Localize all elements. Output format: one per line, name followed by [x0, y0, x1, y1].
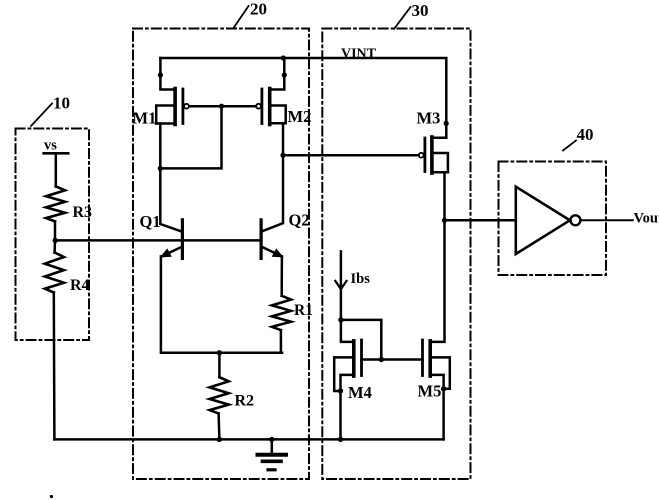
pointer line 20 [234, 6, 249, 28]
svg-text:40: 40 [577, 125, 594, 144]
block box 20 [133, 29, 309, 480]
stray mark bottom left [50, 495, 53, 498]
Ibs arrowhead [335, 281, 346, 289]
wire gate line M1 to M2 [189, 105, 256, 108]
transistor M5 gate bar [421, 340, 424, 376]
svg-text:30: 30 [412, 1, 429, 20]
transistor Q2 emitter arrow [272, 248, 284, 257]
transistor M2 gate bubble [256, 104, 261, 109]
wire rail to M1 source [160, 58, 175, 90]
transistor Q1 emitter arrow [160, 248, 172, 257]
svg-text:R2: R2 [235, 393, 255, 410]
svg-text:vs: vs [44, 138, 57, 154]
transistor Q1 emitter [163, 247, 182, 256]
transistor M4 channel [352, 341, 356, 376]
svg-text:M4: M4 [348, 383, 372, 402]
transistor Q2 emitter [261, 247, 280, 256]
svg-text:M3: M3 [417, 109, 441, 128]
pointer line 40 [563, 141, 576, 151]
svg-text:R4: R4 [70, 277, 90, 294]
wire ground rail [54, 438, 443, 441]
wire base rail [55, 239, 261, 242]
junction M5 source [441, 386, 446, 391]
wire R4 down to ground rail [53, 293, 56, 440]
transistor M2 channel [268, 89, 272, 125]
junction node A (R3/R4/base) [53, 238, 58, 243]
svg-text:M2: M2 [288, 107, 312, 126]
wire R1 to tail rail [280, 330, 283, 353]
svg-text:R1: R1 [294, 302, 313, 319]
resistor R1 [272, 296, 291, 330]
svg-text:20: 20 [250, 0, 267, 19]
junction on M2 source [282, 72, 287, 77]
transistor M5 source stub [430, 375, 443, 440]
svg-text:VINT: VINT [341, 47, 377, 62]
transistor M4 source stub [341, 375, 354, 440]
wire node to inverter input [445, 219, 516, 222]
transistor Q2 base bar [260, 220, 263, 259]
wire Q2 emitter to R1 [280, 256, 283, 296]
junction M4 ground [338, 437, 343, 442]
wire vs to R3 [55, 153, 58, 186]
wire R2 to ground rail [217, 414, 220, 440]
transistor M4 gate bar [360, 340, 363, 376]
svg-text:Ibs: Ibs [351, 271, 371, 287]
wire M2 drain to M3 gate [283, 154, 419, 157]
pointer line 10 [31, 104, 52, 127]
junction on rail at M2 column [281, 55, 286, 60]
junction Ibs node [338, 317, 343, 322]
transistor M3 gate bar [423, 138, 426, 172]
transistor M1 drain stub [156, 122, 175, 125]
wire tail to R2 [218, 353, 221, 377]
wire Q1 emitter to tail rail [161, 256, 282, 352]
block box 10 [16, 129, 90, 341]
wire M3 drain down to M5 drain [430, 172, 444, 342]
svg-text:M5: M5 [418, 382, 442, 401]
svg-text:Q1: Q1 [140, 212, 161, 231]
pointer line 30 [394, 7, 411, 29]
transistor Q1 base bar [181, 220, 184, 259]
junction on M1 source [158, 72, 163, 77]
transistor M4 bulk stub [334, 357, 354, 391]
transistor M3 drain stub [432, 171, 448, 174]
wire inverter output [581, 219, 633, 221]
svg-text:R3: R3 [73, 204, 93, 221]
wire Ibs node to M4 gate [341, 320, 381, 360]
svg-text:Vout: Vout [634, 211, 659, 227]
transistor M2 drain stub [270, 122, 286, 125]
wire R3 to R4 [53, 221, 56, 252]
resistor R2 [210, 377, 229, 413]
wire rail to M2 source [270, 58, 285, 90]
junction inverter input node [442, 218, 447, 223]
junction tail node [217, 350, 222, 355]
block box 30 [322, 29, 470, 480]
inverter U1 triangle [516, 187, 570, 254]
junction gate node [219, 104, 224, 109]
junction M4/M5 gate node [379, 357, 384, 362]
junction M3 source stub [444, 121, 449, 126]
transistor M3 bulk stub [432, 153, 448, 172]
transistor M2 gate bar [260, 89, 263, 124]
wire gate node to M1 drain [160, 106, 221, 168]
transistor M3 gate bubble [419, 153, 424, 158]
node vs terminal bar [44, 152, 68, 155]
junction M2 drain node [280, 153, 285, 158]
transistor M1 gate bubble [184, 104, 189, 109]
junction M4 source [338, 388, 343, 393]
wire M1 drain to Q1 collector [160, 124, 181, 232]
junction ground tap [269, 437, 274, 442]
current source Ibs wire [341, 251, 354, 342]
transistor M1 bulk stub [156, 106, 175, 124]
svg-text:10: 10 [53, 94, 70, 113]
junction M1 drain node [158, 166, 163, 171]
wire M2 drain to Q2 collector [262, 123, 283, 231]
transistor M1 gate bar [181, 89, 184, 124]
block box 40 [499, 162, 607, 276]
transistor M2 bulk stub [270, 106, 286, 124]
transistor M5 channel [428, 341, 432, 376]
wire gate rail M4 to M5 [362, 358, 423, 361]
svg-text:M1: M1 [133, 109, 157, 128]
resistor R4 [45, 253, 64, 293]
ground [258, 439, 287, 469]
wire VINT top rail with M3 source drop [160, 58, 446, 138]
resistor R3 [46, 186, 65, 221]
inverter U1 bubble [570, 215, 580, 225]
transistor M5 bulk stub [430, 357, 450, 388]
transistor M1 channel [173, 89, 177, 125]
transistor M3 channel [430, 137, 434, 173]
svg-text:Q2: Q2 [289, 211, 310, 230]
junction R2 ground [217, 437, 222, 442]
